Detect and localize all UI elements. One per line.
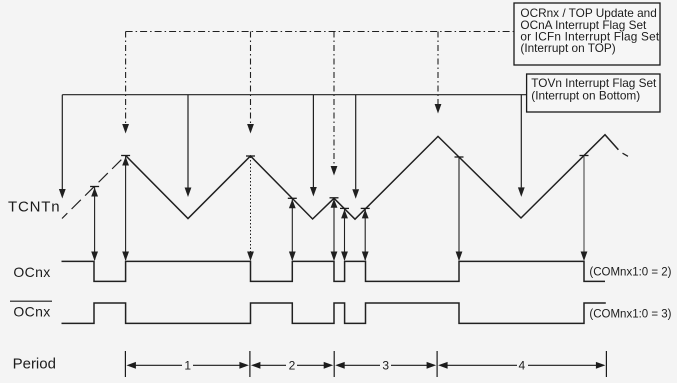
- svg-text:(Interrupt on TOP): (Interrupt on TOP): [520, 41, 615, 55]
- svg-text:Period: Period: [13, 356, 56, 373]
- svg-text:1: 1: [184, 358, 191, 372]
- svg-text:2: 2: [289, 358, 296, 372]
- svg-text:TCNTn: TCNTn: [8, 199, 60, 216]
- svg-text:4: 4: [518, 358, 525, 372]
- svg-text:3: 3: [382, 358, 389, 372]
- svg-text:(COMnx1:0 = 3): (COMnx1:0 = 3): [589, 309, 671, 321]
- svg-text:(Interrupt on Bottom): (Interrupt on Bottom): [531, 89, 640, 103]
- svg-text:(COMnx1:0 = 2): (COMnx1:0 = 2): [589, 267, 671, 279]
- svg-text:OCnx: OCnx: [13, 264, 50, 280]
- svg-text:OCnx: OCnx: [13, 304, 50, 320]
